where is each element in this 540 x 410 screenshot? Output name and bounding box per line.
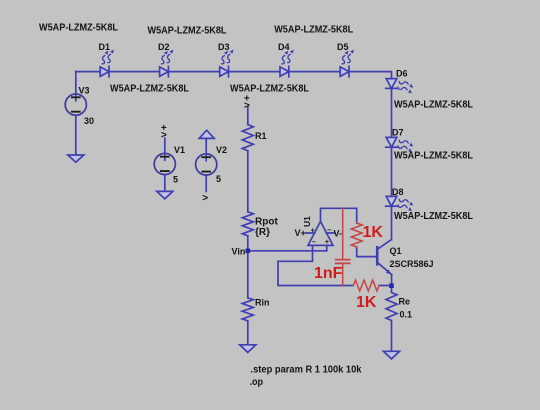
svg-text:{R}: {R}: [255, 227, 270, 238]
voltage source V3: [65, 94, 86, 115]
svg-text:W5AP-LZMZ-5K8L: W5AP-LZMZ-5K8L: [274, 25, 353, 36]
svg-text:V-: V-: [334, 229, 343, 239]
wire V1 top stub: [164, 138, 166, 153]
svg-text:W5AP-LZMZ-5K8L: W5AP-LZMZ-5K8L: [148, 26, 227, 37]
wire D5 to top-right corner and down to D6: [349, 72, 392, 79]
svg-text:>: >: [161, 130, 167, 141]
svg-text:D3: D3: [218, 42, 230, 52]
svg-text:–: –: [312, 237, 316, 246]
wire V2 bottom stub: [205, 175, 207, 191]
diode D1: [100, 50, 114, 77]
wire op-amp noninverting input stub: [326, 245, 328, 250]
wire V3 bottom to ground: [75, 116, 77, 155]
svg-text:W5AP-LZMZ-5K8L: W5AP-LZMZ-5K8L: [39, 23, 118, 34]
diode D2: [160, 50, 174, 77]
wire D2 to D3: [168, 71, 219, 73]
wire R1 top stub from V+ flag: [247, 107, 249, 125]
wire D4 to D5: [289, 71, 340, 73]
wire V1 bottom to ground: [164, 175, 166, 192]
svg-text:D5: D5: [337, 42, 349, 52]
inverted ground flag above V2: [199, 130, 214, 138]
transistor Q1: [377, 240, 391, 286]
svg-text:>: >: [202, 193, 208, 204]
svg-text:.step param R 1 100k 10k: .step param R 1 100k 10k: [251, 364, 362, 376]
wire inverting input feedback loop: [278, 245, 353, 285]
wire R1 to Rpot: [247, 151, 249, 212]
svg-text:W5AP-LZMZ-5K8L: W5AP-LZMZ-5K8L: [230, 84, 309, 95]
wire top rail V3 corner to D1: [76, 71, 100, 73]
ground below V3: [68, 155, 84, 162]
svg-text:V+: V+: [295, 228, 306, 238]
svg-text:Rin: Rin: [255, 298, 270, 308]
diode D4: [280, 50, 294, 77]
diode D5: [340, 50, 354, 77]
svg-text:+: +: [325, 237, 330, 246]
svg-text:30: 30: [84, 116, 94, 126]
op-amp U1 triangle: [308, 221, 333, 245]
ground below V1: [157, 191, 173, 198]
svg-text:V2: V2: [216, 145, 227, 155]
svg-text:>: >: [244, 100, 250, 111]
wire op-amp output up and right to R feedback: [321, 208, 357, 223]
resistor R1: [242, 125, 253, 151]
wire emitter node to Re: [391, 286, 393, 293]
wire V3 top stub: [75, 72, 77, 95]
svg-text:D8: D8: [392, 187, 404, 197]
diode D7: [386, 137, 414, 152]
svg-text:Rpot: Rpot: [255, 217, 278, 228]
svg-text:W5AP-LZMZ-5K8L: W5AP-LZMZ-5K8L: [394, 211, 473, 222]
node Vin junction dot: [246, 249, 251, 254]
svg-text:–: –: [327, 225, 331, 234]
svg-text:Q1: Q1: [390, 246, 402, 256]
svg-text:D7: D7: [392, 128, 404, 138]
wire D3 to D4: [229, 71, 281, 73]
svg-text:+: +: [311, 225, 316, 234]
wire D8 to Q1 collector: [391, 206, 393, 240]
resistor Re: [386, 293, 397, 321]
resistor Rpot: [242, 212, 253, 236]
svg-text:1K: 1K: [356, 294, 377, 311]
svg-text:R1: R1: [255, 131, 267, 141]
svg-text:.op: .op: [250, 376, 264, 388]
wire V2 top stub: [205, 138, 207, 154]
ground below Rin: [240, 345, 256, 353]
svg-text:1nF: 1nF: [314, 265, 343, 282]
wire Rpot to Rin through node Vin: [247, 236, 249, 298]
svg-text:D1: D1: [99, 42, 111, 52]
node emitter junction dot: [389, 283, 394, 288]
svg-text:D4: D4: [278, 42, 290, 52]
wire Rin to ground: [247, 321, 249, 345]
ground below Re: [384, 351, 400, 359]
op-amp power stubs: [306, 232, 335, 234]
svg-text:Vin: Vin: [232, 247, 246, 257]
voltage source V2: [196, 154, 217, 175]
diode D6: [386, 79, 414, 94]
voltage source V1: [154, 153, 175, 174]
svg-text:W5AP-LZMZ-5K8L: W5AP-LZMZ-5K8L: [394, 151, 473, 162]
svg-text:V3: V3: [79, 86, 90, 96]
svg-text:Re: Re: [399, 297, 411, 307]
resistor 1K (collector, red): [351, 223, 362, 247]
wire D6 to D7: [391, 88, 393, 137]
diode D3: [220, 50, 234, 77]
svg-text:1K: 1K: [363, 224, 384, 241]
svg-text:0.1: 0.1: [400, 310, 413, 320]
wire D1 to D2: [109, 71, 160, 73]
wire 1K feedback resistor to emitter node: [379, 285, 392, 287]
wire node Vin to op-amp noninverting input: [248, 250, 327, 252]
svg-text:D2: D2: [158, 42, 170, 52]
wire Re to ground: [391, 321, 393, 352]
wire D7 to D8: [391, 147, 393, 196]
svg-text:5: 5: [173, 175, 178, 185]
capacitor 1nF (red): [336, 208, 350, 285]
resistor 1K (feedback, red): [353, 280, 379, 291]
svg-text:W5AP-LZMZ-5K8L: W5AP-LZMZ-5K8L: [110, 84, 189, 95]
svg-text:D6: D6: [396, 69, 408, 79]
svg-text:V1: V1: [174, 145, 185, 155]
diode D8: [386, 196, 414, 211]
svg-text:2SCR586J: 2SCR586J: [390, 259, 434, 269]
wire 1K resistor bottom to Q1 base: [357, 247, 378, 257]
resistor Rin: [242, 298, 253, 321]
svg-text:5: 5: [216, 174, 221, 184]
svg-text:W5AP-LZMZ-5K8L: W5AP-LZMZ-5K8L: [394, 100, 473, 111]
